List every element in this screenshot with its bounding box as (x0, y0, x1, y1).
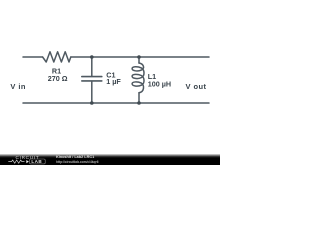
wire: top left segment (V in to R1) (23, 56, 43, 58)
logo resistor zigzag (8, 160, 24, 163)
node A junction dot (90, 55, 94, 59)
node B junction dot (137, 55, 141, 59)
footer bar (0, 154, 220, 165)
svg-text:Kinoshit / Lab2 LRC1: Kinoshit / Lab2 LRC1 (56, 155, 94, 159)
capacitor C1 bottom lead (91, 82, 93, 104)
inductor L1 coil (132, 63, 144, 93)
logo arrow (26, 160, 29, 163)
node C junction dot (90, 101, 94, 105)
node D junction dot (137, 101, 141, 105)
wire: R1 to node A (71, 56, 92, 58)
svg-text:LAB: LAB (31, 159, 42, 164)
schematic canvas (0, 0, 220, 152)
resistor R1 (43, 52, 71, 62)
wire: node A to node B (92, 56, 140, 58)
inductor L1 top lead (138, 57, 140, 63)
logo LAB box (30, 159, 46, 164)
capacitor C1 plates (82, 77, 102, 81)
svg-text:100 µH: 100 µH (148, 80, 171, 89)
wire: bottom rail (23, 102, 209, 104)
capacitor C1 top lead (91, 57, 93, 76)
svg-text:http://circuitlab.com/c/4kqr6: http://circuitlab.com/c/4kqr6 (56, 160, 99, 164)
svg-text:1 µF: 1 µF (106, 77, 121, 86)
wire: node B to right port (139, 56, 209, 58)
svg-text:270 Ω: 270 Ω (48, 74, 68, 83)
svg-text:V in: V in (10, 82, 26, 91)
inductor L1 bottom lead (138, 93, 140, 103)
svg-text:V out: V out (186, 82, 207, 91)
